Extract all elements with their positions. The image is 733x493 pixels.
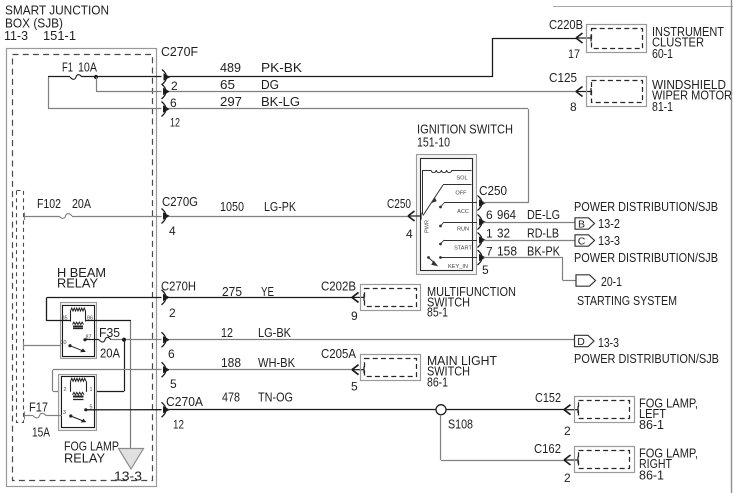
wire: S108 branch to C162 [441,460,564,462]
svg-text:17: 17 [568,47,580,61]
wire: into fog relay coil pin 2 [53,391,71,393]
connector C220B terminal [576,33,583,43]
svg-text:LG-PK: LG-PK [264,200,297,214]
svg-text:275: 275 [222,285,242,299]
relay switch pivot 30 [68,344,71,347]
fog lamp right box [575,447,635,473]
svg-text:C220B: C220B [549,18,583,32]
svg-text:2: 2 [169,306,176,320]
svg-text:81-1: 81-1 [652,100,673,114]
svg-text:F102: F102 [37,197,61,211]
wire 1050 LG-PK [169,216,408,218]
svg-text:12: 12 [221,326,233,340]
wire 275 YE [169,297,352,299]
wire: F1 output to C270F pin 2 [82,76,162,78]
connector C270H pin 2 terminal [162,290,167,305]
wire: F1 input lead [48,76,70,78]
svg-text:WH-BK: WH-BK [258,356,296,370]
fog relay contact 5 [84,408,87,411]
svg-text:C270A: C270A [166,395,204,409]
svg-text:188: 188 [221,356,241,370]
svg-text:RUN: RUN [457,227,469,233]
wire 158 BK-PK vertical [562,258,564,281]
fog lamp left box [575,397,635,423]
KEY_IN switch pivot [427,256,430,259]
wire 12 LG-BK [169,339,575,341]
wire 158 BK-PK horizontal [484,257,564,259]
ground G400 symbol [119,449,144,470]
svg-text:C202B: C202B [321,280,356,294]
svg-text:C: C [578,236,586,248]
wire: F102 to C270G pin 4 [72,216,162,218]
fuse F35 [99,337,111,342]
off-page ref B [575,218,595,229]
svg-text:60-1: 60-1 [652,47,673,61]
svg-text:15A: 15A [32,426,51,440]
wire: YE branch down to relay coil [46,297,48,321]
wire 489 PK-BK to instrument cluster [493,38,576,40]
ignition KEY_IN contact row [441,257,477,259]
wire: fog relay 5 to C270A pin 12 [86,409,162,411]
relay switch arm [70,346,84,352]
svg-text:13-3: 13-3 [598,336,619,350]
svg-text:S108: S108 [448,418,473,432]
wire F102 feed tick [24,213,26,221]
fog relay switch arm [71,416,85,422]
wire 297 BK-LG vertical drop to ignition switch [528,109,530,203]
windshield wiper motor box [587,77,647,107]
wire 478 TN-OG [169,409,436,411]
svg-text:11-3: 11-3 [4,28,28,43]
connector C250 accessory-feed terminal [478,196,483,211]
wire 297 BK-LG horizontal [169,108,529,110]
svg-text:13-3: 13-3 [114,469,142,484]
svg-text:B: B [578,219,585,231]
wire 964 DE-LG [484,222,576,224]
svg-text:6: 6 [486,208,493,222]
wire: bus to fuse F17 [24,415,33,417]
wire: drop to fog relay coil pin 2 [52,370,54,392]
connector C250 terminal (switch feed) [408,211,415,221]
connector C250 pin 1 terminal [478,233,483,248]
fog lamp relay coil [71,378,86,381]
svg-text:C125: C125 [549,71,577,85]
svg-text:86-1: 86-1 [427,376,448,390]
instrument cluster box [587,25,647,53]
svg-text:12: 12 [173,418,184,432]
connector C270 pin 6 terminal [162,332,167,347]
svg-text:20A: 20A [72,197,92,211]
svg-text:C270F: C270F [161,45,198,59]
wire: fog relay coil feed inside SJB [53,369,162,371]
multifunction switch box [361,285,421,311]
svg-text:2: 2 [564,471,571,485]
ignition switch PWR bus vertical [422,170,424,215]
svg-text:C250: C250 [479,184,507,198]
svg-text:3: 3 [63,410,66,416]
svg-text:5: 5 [170,377,177,391]
svg-text:964: 964 [497,208,516,222]
wire: to C270F pin 6 [96,91,162,93]
ignition switch rotor arm [423,185,443,216]
svg-text:9: 9 [351,309,358,323]
connector C270G pin 4 terminal [162,209,167,224]
connector C250 pin 6 terminal [478,215,483,230]
svg-text:10A: 10A [78,61,98,75]
wire: to C270F pin 12 [48,108,162,110]
rotor arm arrowhead [431,197,437,203]
svg-text:13-3: 13-3 [598,234,620,248]
svg-text:RD-LB: RD-LB [527,227,559,241]
svg-text:POWER DISTRIBUTION/SJB: POWER DISTRIBUTION/SJB [574,251,718,265]
ignition contact row at y=222 [444,222,477,224]
svg-text:YE: YE [261,285,274,299]
svg-text:6: 6 [168,347,175,361]
ignition switch feed bus [423,170,432,172]
svg-text:LG-BK: LG-BK [258,326,292,340]
wire 489 PK-BK vertical [492,38,494,77]
svg-text:C205A: C205A [321,347,357,361]
KEY_IN switch arm [429,258,437,265]
smart junction box outer solid border [7,49,157,487]
svg-text:151-1: 151-1 [43,28,76,43]
svg-text:PK-BK: PK-BK [261,61,303,75]
svg-text:13-2: 13-2 [598,217,620,231]
svg-text:1050: 1050 [220,200,244,214]
svg-text:RELAY: RELAY [64,452,106,466]
svg-text:STARTING SYSTEM: STARTING SYSTEM [577,294,677,308]
wire: branch to C270F pin 6 [96,77,98,92]
svg-text:OFF: OFF [455,191,467,197]
connector C250 pin 7 terminal [478,250,483,265]
svg-text:RELAY: RELAY [57,277,99,291]
svg-text:F35: F35 [99,326,120,340]
wire: SJB to C270H pin 2 [47,297,162,299]
wire: bus to fuse F102 [24,216,59,218]
connector C125 terminal [576,87,583,97]
connector C162 terminal [564,455,571,465]
wire 65 DG [169,91,576,93]
svg-text:2: 2 [564,424,571,438]
svg-text:5: 5 [482,263,489,277]
wire: branch down-left of F1 [48,77,50,109]
relay contact 87 [83,338,86,341]
svg-text:D: D [577,336,585,348]
fuse F102 [59,214,72,219]
off-page ref D [575,335,595,346]
wire 158 BK-PK to starting system [563,280,576,282]
wire from C250 to 297 BK-LG drop [484,202,529,204]
svg-text:478: 478 [222,391,240,405]
connector C270 pin 5 terminal [162,362,167,377]
connector C270F pin 12 terminal [162,102,167,117]
svg-text:BK-PK: BK-PK [527,245,561,259]
svg-text:20-1: 20-1 [601,275,622,289]
ignition OFF contact row [443,184,472,186]
svg-text:BK-LG: BK-LG [261,95,300,109]
wire 32 RD-LB [484,240,576,242]
svg-text:1: 1 [486,227,493,241]
page border right edge [731,0,733,493]
svg-text:32: 32 [497,227,510,241]
relay K2 FOG LAMP RELAY [59,375,97,431]
relay K1 H BEAM RELAY [61,303,97,359]
ignition switch box [417,155,477,275]
svg-text:F1: F1 [62,61,73,75]
connector C270F pin 2 terminal [162,70,167,85]
feed tick [23,342,25,350]
svg-text:1: 1 [90,387,93,393]
splice S108 [436,405,446,415]
svg-text:20A: 20A [100,347,121,361]
svg-text:F17: F17 [29,401,48,415]
F17 feed tick [24,412,26,420]
svg-text:TN-OG: TN-OG [258,391,293,405]
svg-text:297: 297 [220,95,242,109]
off-page ref C [575,235,595,246]
fog relay switch pivot 3 [69,414,72,417]
smart junction box dashed border [13,55,153,481]
connector C205A terminal [352,365,359,375]
svg-text:86-1: 86-1 [639,469,664,483]
wire: to fog relay coil pin 1 [86,391,124,393]
svg-text:489: 489 [220,61,241,75]
svg-text:PWR: PWR [425,220,431,233]
svg-text:7: 7 [486,245,493,259]
svg-text:POWER DISTRIBUTION/SJB: POWER DISTRIBUTION/SJB [574,200,718,214]
svg-text:4: 4 [169,224,176,238]
wire: relay coils to ground [130,321,132,449]
fuse F1 [70,75,82,80]
svg-text:C270H: C270H [161,280,196,294]
svg-text:30: 30 [61,340,67,346]
connector C270F pin 6 terminal [162,84,167,99]
wire: relay 87 to fuse F35 [85,339,99,341]
connector C152 terminal [564,405,571,415]
wire: bus feed to relay pin 30 [24,345,62,347]
svg-text:C162: C162 [534,442,561,456]
svg-text:ACC: ACC [457,209,469,215]
ignition switch solenoid coil [431,170,452,173]
wire: S108 branch down [440,415,442,460]
ignition contact row at y=203 [444,202,477,204]
svg-text:65: 65 [220,78,235,92]
page border top edge [553,6,733,8]
svg-text:C152: C152 [535,391,561,405]
wire: F35 junction down to fog relay coil [124,340,126,392]
svg-text:12: 12 [170,116,180,130]
svg-text:C250: C250 [387,197,411,211]
fuse F17 [33,413,46,418]
svg-text:DE-LG: DE-LG [527,208,560,222]
wire 489 PK-BK horizontal [169,76,493,78]
SJB internal fuse-bus dashed box [17,191,24,423]
svg-text:KEY_IN: KEY_IN [448,264,468,270]
H beam relay coil [71,308,86,311]
svg-text:158: 158 [497,245,517,259]
wire: into relay coil pin 85 [47,320,71,322]
svg-text:POWER DISTRIBUTION/SJB: POWER DISTRIBUTION/SJB [574,352,719,366]
svg-text:DG: DG [261,78,279,92]
ignition contact row at y=240 [444,240,477,242]
wire: S108 to C152 [446,409,564,411]
wire: F17 to fog relay pin 3 [46,415,62,417]
junction S at F35 output [122,338,126,342]
junction of 489/65 branch [94,75,98,79]
svg-text:85-1: 85-1 [427,306,448,320]
wire 188 WH-BK [169,369,352,371]
svg-text:86-1: 86-1 [639,418,664,432]
main light switch box [361,355,421,381]
svg-text:2: 2 [64,387,67,393]
svg-text:8: 8 [570,100,577,114]
svg-text:C270G: C270G [162,195,198,209]
wire: F35 to C270 pin 6 [111,339,162,341]
svg-text:4: 4 [406,227,413,241]
svg-text:SOL: SOL [456,176,467,182]
connector C270A pin 12 terminal [162,402,167,417]
svg-text:5: 5 [351,380,358,394]
connector C202B terminal [352,292,359,302]
wire: relay coil pin 86 out [86,320,132,322]
svg-text:151-10: 151-10 [417,135,450,150]
svg-text:START: START [454,246,472,252]
off-page ref to starting system [576,275,596,286]
